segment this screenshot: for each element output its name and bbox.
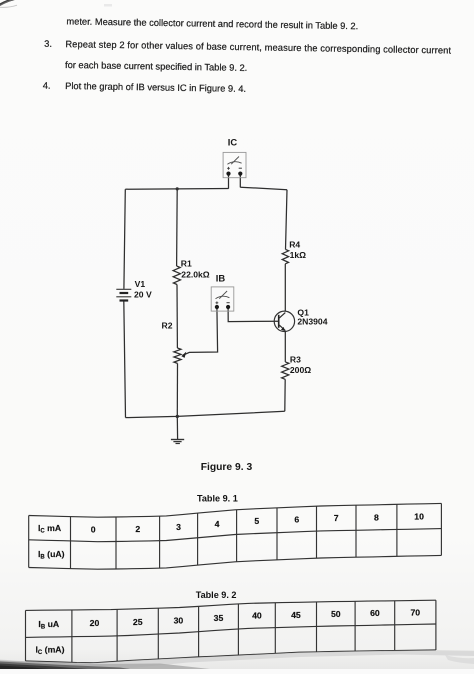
- svg-text:10: 10: [414, 512, 424, 522]
- svg-text:Table 9. 2: Table 9. 2: [196, 590, 237, 600]
- svg-text:IC mA: IC mA: [38, 523, 62, 535]
- svg-text:Table 9. 1: Table 9. 1: [197, 494, 238, 504]
- svg-text:25: 25: [133, 617, 143, 627]
- svg-text:4: 4: [215, 519, 220, 529]
- svg-text:50: 50: [331, 609, 341, 619]
- svg-text:45: 45: [291, 610, 301, 620]
- svg-text:V1: V1: [135, 279, 146, 289]
- svg-text:IB uA: IB uA: [38, 619, 59, 631]
- svg-text:R4: R4: [289, 240, 300, 250]
- svg-text:Repeat step 2 for other values: Repeat step 2 for other values of base c…: [65, 39, 451, 55]
- svg-text:20 V: 20 V: [134, 290, 152, 300]
- svg-text:R1: R1: [181, 258, 192, 268]
- svg-text:3: 3: [176, 522, 181, 532]
- svg-text:2: 2: [135, 524, 140, 534]
- svg-text:40: 40: [252, 611, 262, 621]
- svg-text:2N3904: 2N3904: [297, 317, 327, 327]
- svg-text:IB: IB: [216, 272, 226, 283]
- svg-text:6: 6: [294, 515, 299, 525]
- svg-text:70: 70: [410, 608, 420, 618]
- svg-text:R3: R3: [290, 354, 301, 364]
- svg-text:30: 30: [174, 615, 184, 625]
- svg-text:IC (mA): IC (mA): [36, 644, 65, 656]
- svg-text:0: 0: [91, 525, 96, 535]
- svg-text:1kΩ: 1kΩ: [290, 250, 307, 260]
- svg-text:22.0kΩ: 22.0kΩ: [181, 269, 210, 279]
- svg-text:4.: 4.: [43, 81, 51, 91]
- svg-text:3.: 3.: [44, 39, 52, 49]
- svg-text:35: 35: [214, 613, 224, 623]
- svg-text:Figure 9. 3: Figure 9. 3: [201, 462, 253, 473]
- svg-text:8: 8: [374, 512, 379, 522]
- svg-text:60: 60: [370, 608, 380, 618]
- svg-text:200Ω: 200Ω: [290, 365, 311, 375]
- svg-text:IB (uA): IB (uA): [38, 549, 65, 561]
- svg-text:5: 5: [254, 516, 259, 526]
- svg-text:20: 20: [90, 618, 100, 628]
- svg-text:for each base current specifie: for each base current specified in Table…: [65, 60, 247, 73]
- svg-text:IC: IC: [228, 136, 238, 147]
- svg-text:R2: R2: [162, 320, 173, 330]
- svg-text:meter. Measure the collector c: meter. Measure the collector current and…: [66, 16, 358, 31]
- svg-text:7: 7: [334, 513, 339, 523]
- svg-text:Plot the graph of IB versus IC: Plot the graph of IB versus IC in Figure…: [65, 81, 246, 94]
